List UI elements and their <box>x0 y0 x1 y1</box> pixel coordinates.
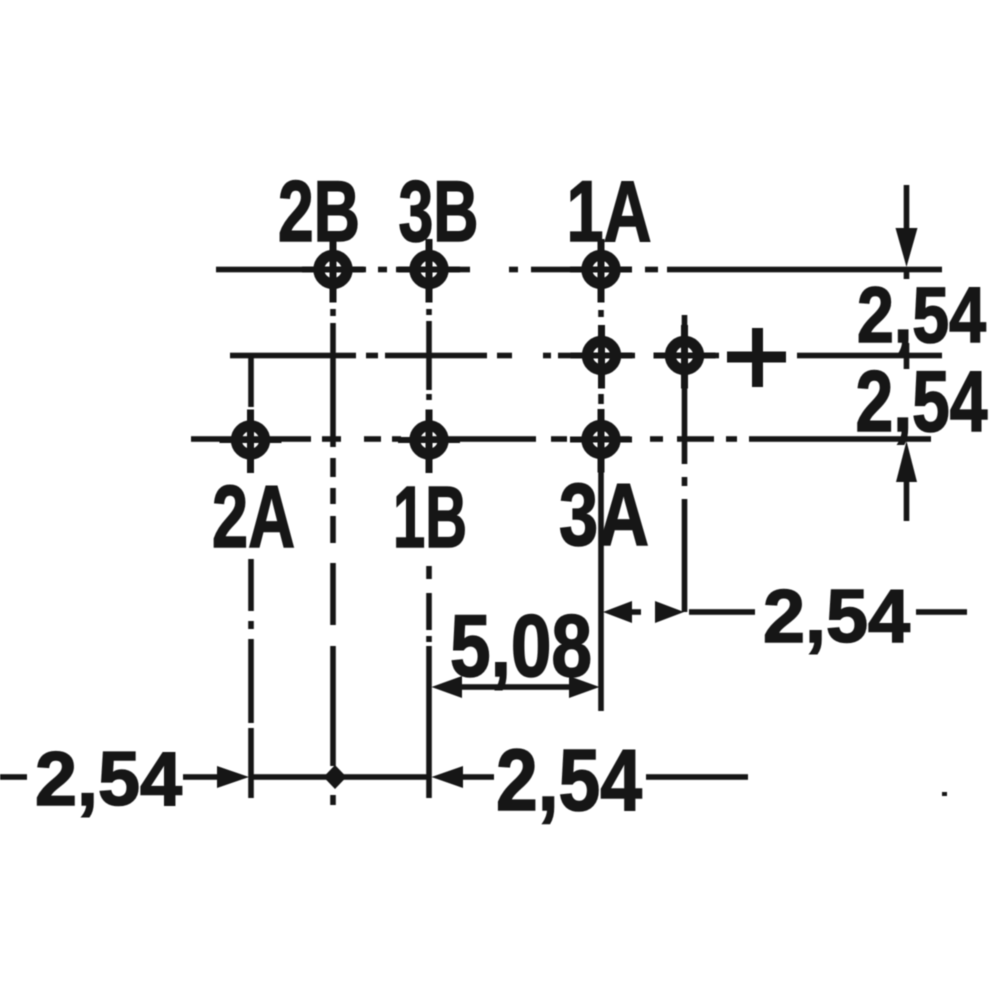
pad 3A <box>570 409 632 473</box>
dimension: 5,08 horizontal with arrows at y=687 <box>432 676 600 698</box>
svg-text:2B: 2B <box>278 164 360 260</box>
wire: column 2B vertical center line <box>330 309 336 805</box>
wire: column of auxiliary pad vertical line <box>682 315 688 612</box>
pad 1B <box>398 410 460 474</box>
svg-text:2,54: 2,54 <box>856 354 988 450</box>
svg-text:1A: 1A <box>567 164 652 260</box>
wire: row-3 horizontal center line (dash-dot) <box>191 436 931 442</box>
pad 2B <box>302 239 364 303</box>
stray speck bottom right <box>942 792 947 796</box>
svg-text:3A: 3A <box>559 465 649 564</box>
wire: column 2A vertical center line <box>248 357 254 798</box>
wire: row-2 horizontal center line (dash-dot) <box>230 353 942 359</box>
svg-text:2A: 2A <box>212 467 295 566</box>
svg-text:2,54: 2,54 <box>496 732 642 829</box>
wire: row-1 horizontal center line (dash-dot) <box>216 267 942 273</box>
wire: column 1A/3A vertical center line <box>598 310 604 711</box>
dimension: bottom 2,54 chain line at y=775 <box>0 766 748 788</box>
svg-text:1B: 1B <box>393 469 467 566</box>
svg-text:3B: 3B <box>399 164 479 260</box>
pad 1A <box>570 239 632 303</box>
pad row2 centre <box>571 325 633 389</box>
datum cross marker <box>727 328 786 387</box>
svg-text:2,54: 2,54 <box>763 574 910 658</box>
wire: column 1B/3B vertical center line <box>426 309 432 798</box>
dimension: right vertical 2,54/2,54 leader with arrows <box>896 185 918 521</box>
pad 2A <box>220 410 282 474</box>
junction diamond on bottom dimension line <box>324 765 347 789</box>
pad row2 right <box>654 325 716 389</box>
dimension: mid-right 2,54 with outward arrows at y=612 <box>603 601 967 623</box>
svg-text:2,54: 2,54 <box>857 270 986 359</box>
pad 3B <box>398 239 460 303</box>
svg-text:5,08: 5,08 <box>450 596 592 695</box>
svg-text:2,54: 2,54 <box>35 737 182 822</box>
